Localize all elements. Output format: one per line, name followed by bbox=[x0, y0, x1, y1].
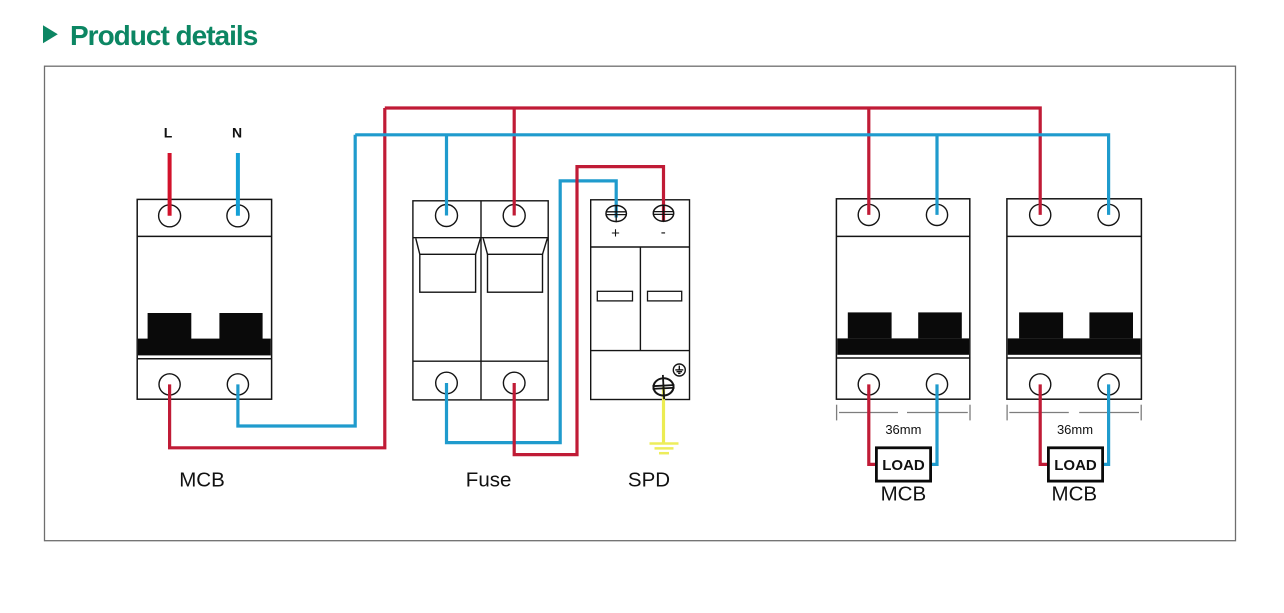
MCB Q1 terminal bottom N bbox=[227, 374, 248, 395]
fuse F1 terminal bottom left bbox=[436, 372, 458, 394]
SPD terminal plus screw bbox=[606, 205, 627, 222]
MCB Q3 dimension 36mm bbox=[837, 405, 970, 421]
MCB Q3 terminal top L bbox=[858, 204, 879, 225]
fuse F1 terminal top left bbox=[436, 205, 458, 227]
MCB Q1 terminal bottom L bbox=[159, 374, 180, 395]
wire N input stub bbox=[236, 153, 240, 216]
MCB Q4 terminal top N bbox=[1098, 204, 1119, 225]
wire blue bus to MCB Q4 bbox=[355, 135, 1108, 215]
fuse F1 terminal bottom right bbox=[503, 372, 525, 394]
wire L input stub bbox=[168, 153, 172, 216]
svg-text:N: N bbox=[232, 124, 242, 140]
svg-text:Fuse: Fuse bbox=[466, 469, 512, 492]
wire MCB Q3 N to load bbox=[930, 384, 937, 464]
SPD earth mark bbox=[673, 364, 685, 376]
MCB Q4 terminal bottom L bbox=[1030, 374, 1051, 395]
MCB Q4 toggle handles bbox=[1008, 312, 1141, 354]
load box 2 bbox=[1048, 448, 1102, 481]
wire fuse out to SPD minus bbox=[514, 167, 663, 455]
load box 1 bbox=[876, 448, 930, 481]
SPD indicator window left bbox=[597, 291, 632, 301]
svg-text:+: + bbox=[611, 225, 620, 242]
MCB Q1 terminal top N bbox=[227, 205, 249, 227]
wire MCB Q1 L out to red bus bbox=[170, 108, 385, 448]
SPD indicator window right bbox=[648, 291, 682, 301]
wire red bus to fuse bbox=[513, 108, 516, 216]
SPD ground screw bbox=[652, 374, 675, 399]
fuse F1 holder right bbox=[483, 238, 547, 292]
svg-text:LOAD: LOAD bbox=[882, 457, 925, 474]
svg-text:-: - bbox=[661, 224, 666, 241]
svg-text:Product details: Product details bbox=[70, 20, 258, 51]
svg-text:36mm: 36mm bbox=[885, 422, 921, 437]
svg-text:MCB: MCB bbox=[1052, 483, 1098, 506]
SPD U1 body bbox=[591, 200, 690, 400]
MCB Q3 toggle handles bbox=[837, 312, 969, 354]
wire MCB Q1 N out to blue bus bbox=[238, 135, 355, 426]
MCB Q4 terminal bottom N bbox=[1098, 374, 1119, 395]
MCB Q3 terminal top N bbox=[926, 204, 947, 225]
fuse F1 body bbox=[413, 201, 548, 400]
SPD terminal minus screw bbox=[653, 205, 674, 222]
svg-text:L: L bbox=[164, 124, 173, 140]
wire blue bus to fuse bbox=[445, 135, 448, 216]
wire MCB Q3 L to load bbox=[869, 384, 877, 464]
wire fuse out to SPD plus bbox=[447, 181, 617, 443]
MCB Q3 terminal bottom L bbox=[858, 374, 879, 395]
MCB Q4 body bbox=[1007, 199, 1142, 399]
svg-text:SPD: SPD bbox=[628, 469, 670, 492]
svg-text:MCB: MCB bbox=[179, 469, 225, 492]
svg-text:LOAD: LOAD bbox=[1054, 457, 1097, 474]
MCB Q1 toggle handles bbox=[138, 313, 271, 355]
MCB Q4 terminal top L bbox=[1030, 204, 1051, 225]
wire MCB Q4 N to load bbox=[1102, 384, 1109, 464]
MCB Q1 body bbox=[137, 199, 271, 399]
MCB Q1 terminal top L bbox=[159, 205, 181, 227]
svg-text:MCB: MCB bbox=[881, 483, 927, 506]
wire blue bus to MCB Q3 bbox=[935, 135, 938, 215]
fuse F1 terminal top right bbox=[503, 205, 525, 227]
svg-text:36mm: 36mm bbox=[1057, 422, 1093, 437]
wire red bus to MCB Q3 bbox=[867, 108, 870, 215]
wire red bus to MCB Q4 bbox=[385, 108, 1040, 215]
fuse F1 holder left bbox=[416, 238, 481, 292]
earth wire bbox=[662, 387, 665, 444]
heading bullet arrow bbox=[43, 25, 58, 43]
ground symbol bbox=[650, 444, 679, 454]
MCB Q4 dimension 36mm bbox=[1007, 405, 1141, 421]
MCB Q3 terminal bottom N bbox=[926, 374, 947, 395]
MCB Q3 body bbox=[836, 199, 969, 399]
wire MCB Q4 L to load bbox=[1040, 384, 1049, 464]
